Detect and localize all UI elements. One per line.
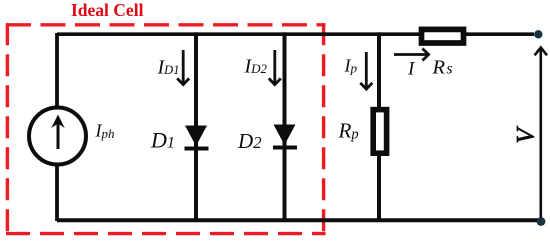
wire diode D1 branch xyxy=(194,32,198,221)
wire resistor Rp branch (bottom) xyxy=(377,153,381,221)
wire diode D2 branch xyxy=(283,32,287,221)
resistor Rs xyxy=(422,29,464,43)
svg-text:V: V xyxy=(513,126,540,144)
title label Ideal Cell xyxy=(71,0,144,20)
resistor Rp xyxy=(373,110,386,154)
svg-text:I: I xyxy=(407,58,416,79)
wire resistor Rp branch (top) xyxy=(377,32,381,110)
ideal-cell boundary (red dashed box) xyxy=(6,23,326,235)
node dot top-right xyxy=(534,30,542,38)
node dot bottom-right xyxy=(537,217,546,226)
wire top rail xyxy=(57,32,534,36)
label I xyxy=(407,58,416,79)
label D1 xyxy=(150,127,175,152)
label Iph xyxy=(95,121,115,141)
label V xyxy=(513,126,540,144)
label ID1 xyxy=(157,56,180,78)
voltage arrow V (output) xyxy=(535,48,547,219)
current source Iph xyxy=(29,108,86,165)
label Ip xyxy=(344,56,358,76)
diode D1 xyxy=(185,126,209,151)
svg-text:D2: D2 xyxy=(237,129,262,153)
svg-text:ID2: ID2 xyxy=(244,55,268,77)
svg-text:Rs: Rs xyxy=(432,56,453,78)
svg-text:D1: D1 xyxy=(150,127,175,152)
svg-text:Ip: Ip xyxy=(344,56,358,76)
label Rp xyxy=(338,119,359,143)
label D2 xyxy=(237,129,262,153)
svg-text:Iph: Iph xyxy=(95,121,115,141)
current arrow ID2 xyxy=(269,50,281,85)
current arrow I xyxy=(394,49,429,61)
svg-text:ID1: ID1 xyxy=(157,56,180,78)
wire bottom rail xyxy=(57,218,541,222)
svg-text:Rp: Rp xyxy=(338,119,359,143)
label Rs xyxy=(432,56,453,78)
current arrow ID1 xyxy=(177,50,189,85)
wire left branch (top rail to current source) xyxy=(55,33,59,107)
wire left branch (current source to bottom rail) xyxy=(55,165,59,222)
svg-text:Ideal Cell: Ideal Cell xyxy=(71,0,144,20)
label ID2 xyxy=(244,55,268,77)
current arrow Ip xyxy=(360,52,372,89)
diode D2 xyxy=(273,125,297,150)
